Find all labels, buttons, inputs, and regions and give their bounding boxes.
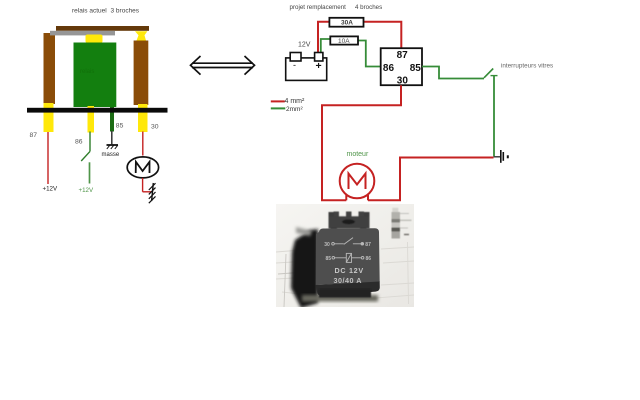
svg-text:3 broches: 3 broches — [111, 7, 140, 14]
svg-text:12V: 12V — [298, 41, 311, 48]
svg-text:87: 87 — [397, 50, 409, 61]
svg-text:30A: 30A — [341, 20, 353, 27]
svg-text:86: 86 — [383, 63, 395, 74]
svg-text:87: 87 — [365, 242, 371, 248]
svg-text:-: - — [293, 60, 296, 70]
svg-text:relais actuel: relais actuel — [72, 7, 107, 14]
svg-text:masse: masse — [102, 152, 120, 158]
svg-text:+12V: +12V — [79, 187, 94, 194]
svg-text:DC 12V: DC 12V — [335, 266, 364, 275]
svg-text:85: 85 — [116, 123, 124, 130]
svg-text:87: 87 — [30, 132, 38, 139]
svg-text:interrupteurs vitres: interrupteurs vitres — [501, 63, 553, 70]
svg-text:30: 30 — [397, 75, 409, 86]
svg-text:30: 30 — [151, 124, 159, 131]
svg-text:projet remplacement: projet remplacement — [290, 4, 347, 11]
svg-text:30: 30 — [324, 242, 330, 248]
svg-text:86: 86 — [75, 138, 83, 145]
svg-text:30/40 A: 30/40 A — [334, 276, 362, 285]
svg-text:moteur: moteur — [347, 151, 369, 158]
svg-text:85: 85 — [410, 63, 422, 74]
svg-text:85: 85 — [326, 256, 332, 262]
svg-text:10A: 10A — [338, 38, 350, 45]
svg-text:86: 86 — [366, 256, 372, 262]
svg-text:relais: relais — [80, 69, 94, 75]
svg-text:+: + — [316, 60, 322, 72]
svg-text:4 mm²: 4 mm² — [285, 98, 306, 105]
svg-text:+12V: +12V — [43, 186, 58, 193]
svg-text:2mm²: 2mm² — [286, 106, 303, 113]
svg-text:4 broches: 4 broches — [355, 4, 382, 11]
